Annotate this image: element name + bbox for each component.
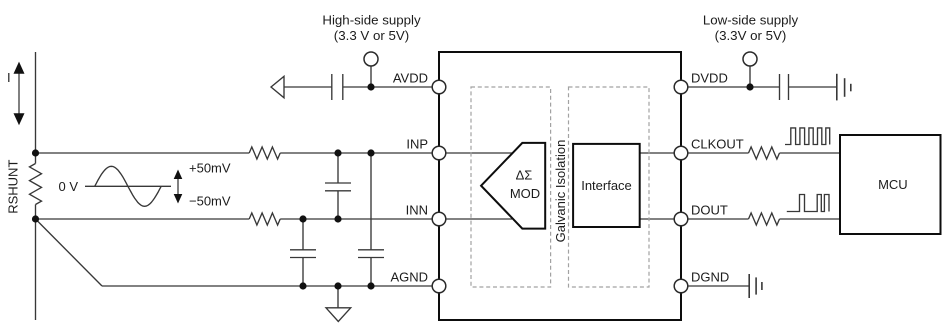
svg-text:MCU: MCU <box>878 177 908 192</box>
svg-text:DVDD: DVDD <box>691 71 728 86</box>
svg-text:Low-side supply: Low-side supply <box>703 13 799 28</box>
svg-text:I: I <box>7 70 11 85</box>
svg-text:0 V: 0 V <box>59 179 79 194</box>
svg-text:RSHUNT: RSHUNT <box>6 160 21 214</box>
svg-text:+50mV: +50mV <box>189 161 231 176</box>
svg-text:ΔΣ: ΔΣ <box>516 168 533 183</box>
svg-text:Galvanic Isolation: Galvanic Isolation <box>553 140 568 243</box>
svg-text:(3.3 V or 5V): (3.3 V or 5V) <box>334 28 409 43</box>
svg-text:−50mV: −50mV <box>189 194 231 209</box>
svg-text:AGND: AGND <box>390 270 428 285</box>
svg-text:CLKOUT: CLKOUT <box>691 137 744 152</box>
svg-text:(3.3V or 5V): (3.3V or 5V) <box>715 28 787 43</box>
svg-text:INP: INP <box>406 137 428 152</box>
svg-text:MOD: MOD <box>510 186 540 201</box>
svg-text:High-side supply: High-side supply <box>322 13 421 28</box>
svg-text:AVDD: AVDD <box>393 71 428 86</box>
svg-text:INN: INN <box>406 203 428 218</box>
svg-text:DOUT: DOUT <box>691 203 728 218</box>
svg-text:DGND: DGND <box>691 270 729 285</box>
svg-text:Interface: Interface <box>581 178 632 193</box>
